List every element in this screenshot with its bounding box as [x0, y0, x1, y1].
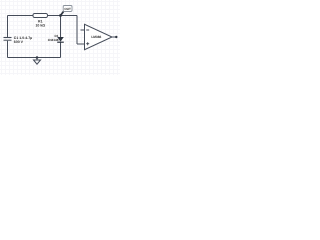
- ground junction dot: [36, 56, 39, 59]
- output terminal dot: [115, 36, 117, 38]
- wire node OUT to top-right corner: [61, 15, 78, 17]
- op-amp U1: [81, 24, 117, 49]
- plus sign: [86, 42, 89, 45]
- net label OUT leader: [61, 12, 64, 16]
- svg-text:1N4148: 1N4148: [48, 38, 59, 42]
- wire diode cathode vertical: [60, 42, 62, 57]
- ground: [34, 58, 41, 65]
- resistor R1: [33, 14, 48, 18]
- wire top-left from corner to R1: [8, 15, 34, 17]
- minus sign: [86, 29, 89, 31]
- wire diode anode vertical: [60, 16, 62, 38]
- svg-text:OUT: OUT: [64, 7, 71, 11]
- wire left vertical C1 top: [7, 16, 9, 38]
- node OUT junction dot: [59, 14, 62, 17]
- wire bottom rail: [8, 57, 61, 59]
- svg-text:10 kΩ: 10 kΩ: [35, 24, 45, 28]
- wire right vertical down to op-amp input: [76, 16, 78, 45]
- pin + (non-inverting input): [81, 43, 85, 45]
- capacitor C1: [4, 38, 12, 41]
- wire into op-amp + input: [77, 43, 81, 45]
- svg-text:600 V: 600 V: [14, 40, 24, 44]
- svg-text:LM386: LM386: [91, 35, 101, 39]
- wire R1 to node OUT: [48, 15, 61, 17]
- net label OUT flag: [63, 6, 72, 12]
- pin output: [112, 36, 116, 38]
- diode D1: [57, 37, 64, 42]
- wire left vertical C1 bottom: [7, 41, 9, 58]
- pin - (inverting input): [81, 29, 85, 31]
